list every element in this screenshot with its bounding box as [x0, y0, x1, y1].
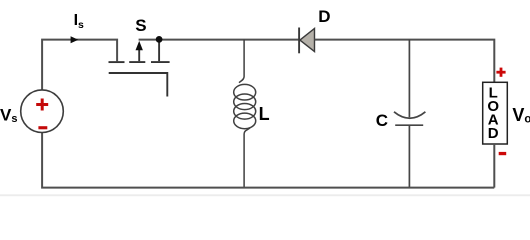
label - (load polarity): [499, 152, 507, 155]
top lead wire: [239, 40, 244, 83]
channel bar (body): [129, 61, 145, 63]
svg-text:D: D: [488, 125, 499, 142]
curved top plate: [394, 112, 425, 118]
capacitor C: [394, 40, 425, 188]
current arrow Is: [71, 36, 79, 43]
body arrow head: [136, 41, 143, 50]
wire: top rail diode to load with corner down to load box: [315, 40, 495, 83]
gate line: [109, 73, 168, 97]
coil loop 3: [234, 104, 256, 120]
wire: Vs bottom lead and bottom rail: [42, 133, 494, 188]
bottom lead wire: [244, 127, 250, 187]
wire: top rail from switch source to diode cathode: [139, 39, 299, 41]
cathode bar: [298, 28, 300, 54]
node: switch/diode junction dot: [156, 36, 163, 43]
wire: load bottom lead: [493, 144, 495, 188]
inductor L: [234, 40, 256, 188]
body arrow stem: [138, 50, 140, 62]
label + (load polarity): [496, 68, 505, 77]
svg-text:S: S: [135, 16, 146, 35]
- mark: [38, 126, 47, 129]
straight bottom plate: [395, 124, 423, 126]
svg-text:L: L: [259, 104, 270, 124]
svg-text:D: D: [318, 7, 330, 26]
anode triangle: [300, 28, 315, 51]
+ mark: [36, 99, 48, 111]
coil loop 2: [234, 94, 256, 110]
coil loop 1: [234, 84, 256, 100]
diode D: [299, 28, 314, 54]
load box: [483, 82, 508, 144]
source Vs: [21, 90, 64, 133]
wire: Vs top lead, top rail left segment, switch drain drop: [42, 40, 117, 90]
source circle: [21, 90, 64, 133]
load letters: [487, 85, 499, 143]
switch S (MOSFET): [109, 40, 170, 97]
channel bar (source): [151, 61, 170, 63]
bottom lead wire: [408, 125, 410, 187]
source stub: [158, 40, 160, 62]
top lead wire: [408, 40, 410, 118]
channel bar (drain): [109, 61, 125, 63]
svg-text:C: C: [376, 111, 388, 130]
coil loop 4: [234, 113, 256, 129]
